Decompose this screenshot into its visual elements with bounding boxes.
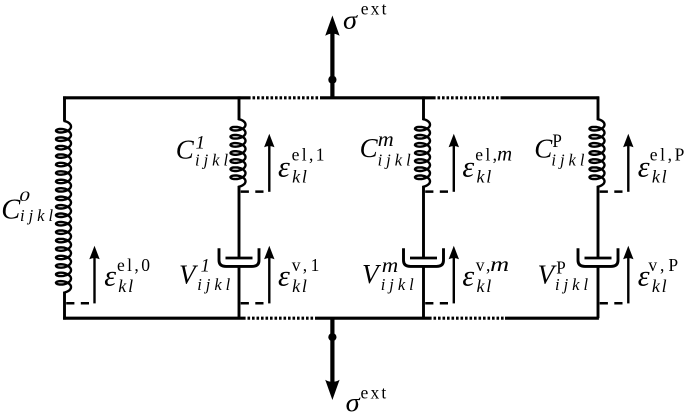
- svg-text:kl: kl: [477, 276, 494, 296]
- strain reference dashes el,1: [241, 190, 266, 193]
- svg-text:ijkl: ijkl: [20, 206, 57, 225]
- wire bottom rail solid left: [63, 317, 243, 320]
- strain reference dashes v,1: [241, 302, 266, 305]
- svg-text:el,0: el,0: [117, 255, 152, 275]
- spring C0: [56, 121, 71, 293]
- svg-text:ext: ext: [361, 0, 389, 19]
- wire bottom rail solid middle: [315, 317, 429, 320]
- svg-text:ijkl: ijkl: [378, 151, 415, 170]
- node junction bottom: [328, 333, 336, 341]
- strain reference dashes v,P: [600, 302, 625, 305]
- wire top rail solid middle: [321, 96, 434, 99]
- svg-text:ijkl: ijkl: [551, 151, 588, 170]
- external stress arrow top: [330, 31, 334, 99]
- wire top rail dotted left: [248, 96, 321, 99]
- wire: [597, 186, 600, 257]
- wire: [238, 266, 241, 318]
- wire: [238, 186, 241, 257]
- strain arrow el,0: [93, 257, 95, 303]
- strain arrow el,m: [453, 145, 455, 192]
- svg-text:σ: σ: [346, 388, 361, 417]
- svg-text:ε: ε: [278, 260, 290, 293]
- svg-text:v,P: v,P: [648, 255, 682, 275]
- svg-text:kl: kl: [477, 167, 494, 187]
- spring Cm: [415, 119, 430, 187]
- strain arrow el,1: [268, 145, 270, 192]
- svg-text:σ: σ: [343, 6, 358, 35]
- node junction top: [328, 76, 336, 84]
- svg-text:kl: kl: [118, 276, 135, 296]
- wire: [422, 96, 425, 120]
- svg-text:m: m: [382, 255, 399, 277]
- strain reference dashes el,0: [66, 302, 91, 305]
- svg-text:ε: ε: [278, 150, 290, 183]
- svg-text:m: m: [378, 129, 394, 151]
- svg-text:el,P: el,P: [650, 145, 685, 165]
- wire bottom rail dotted right: [429, 317, 505, 320]
- wire: [422, 186, 425, 257]
- spring C1: [231, 119, 246, 187]
- svg-text:ε: ε: [462, 150, 474, 183]
- strain arrow v,P: [627, 257, 629, 303]
- strain arrow el,P: [627, 145, 629, 192]
- svg-text:v,1: v,1: [292, 255, 323, 275]
- svg-text:ijkl: ijkl: [555, 275, 592, 294]
- svg-text:kl: kl: [292, 276, 309, 296]
- svg-text:ijkl: ijkl: [381, 275, 418, 294]
- svg-text:0: 0: [19, 189, 31, 205]
- wire: [597, 266, 600, 318]
- dashpot piston plate: [585, 257, 612, 260]
- svg-text:ε: ε: [638, 150, 650, 183]
- dashpot piston plate: [410, 257, 437, 260]
- svg-text:m: m: [490, 254, 509, 276]
- strain reference dashes el,m: [425, 190, 450, 193]
- strain arrow v,1: [268, 257, 270, 303]
- svg-text:ε: ε: [104, 260, 116, 293]
- svg-text:C: C: [1, 195, 21, 226]
- svg-text:kl: kl: [652, 167, 669, 187]
- svg-text:ext: ext: [361, 383, 389, 403]
- strain reference dashes el,P: [600, 190, 625, 193]
- wire bottom rail solid right: [505, 317, 599, 320]
- svg-text:ε: ε: [462, 260, 474, 293]
- dashpot cup VP: [578, 248, 618, 266]
- strain reference dashes v,m: [425, 302, 450, 305]
- wire top rail dotted right: [433, 96, 502, 99]
- wire: [63, 292, 66, 320]
- wire: [422, 266, 425, 318]
- dashpot piston plate: [226, 257, 253, 260]
- svg-text:m: m: [497, 144, 512, 166]
- svg-text:kl: kl: [292, 167, 309, 187]
- svg-text:ijkl: ijkl: [195, 151, 232, 170]
- wire bottom rail dotted left: [243, 317, 315, 320]
- svg-text:el,1: el,1: [292, 145, 327, 165]
- wire: [597, 96, 600, 120]
- strain arrow v,m: [453, 257, 455, 303]
- svg-text:ijkl: ijkl: [197, 275, 234, 294]
- wire top rail solid left: [63, 96, 248, 99]
- dashpot cup V1: [219, 248, 259, 266]
- svg-text:kl: kl: [652, 276, 669, 296]
- svg-text:el,: el,: [475, 145, 499, 165]
- wire: [63, 96, 66, 121]
- spring CP: [590, 119, 605, 187]
- external stress arrow bottom: [330, 317, 334, 384]
- svg-text:P: P: [552, 132, 562, 152]
- dashpot cup Vm: [404, 248, 444, 266]
- svg-text:C: C: [176, 135, 195, 165]
- svg-text:C: C: [360, 133, 379, 163]
- wire top rail solid right: [502, 96, 599, 99]
- svg-text:1: 1: [201, 257, 210, 277]
- wire: [238, 96, 241, 120]
